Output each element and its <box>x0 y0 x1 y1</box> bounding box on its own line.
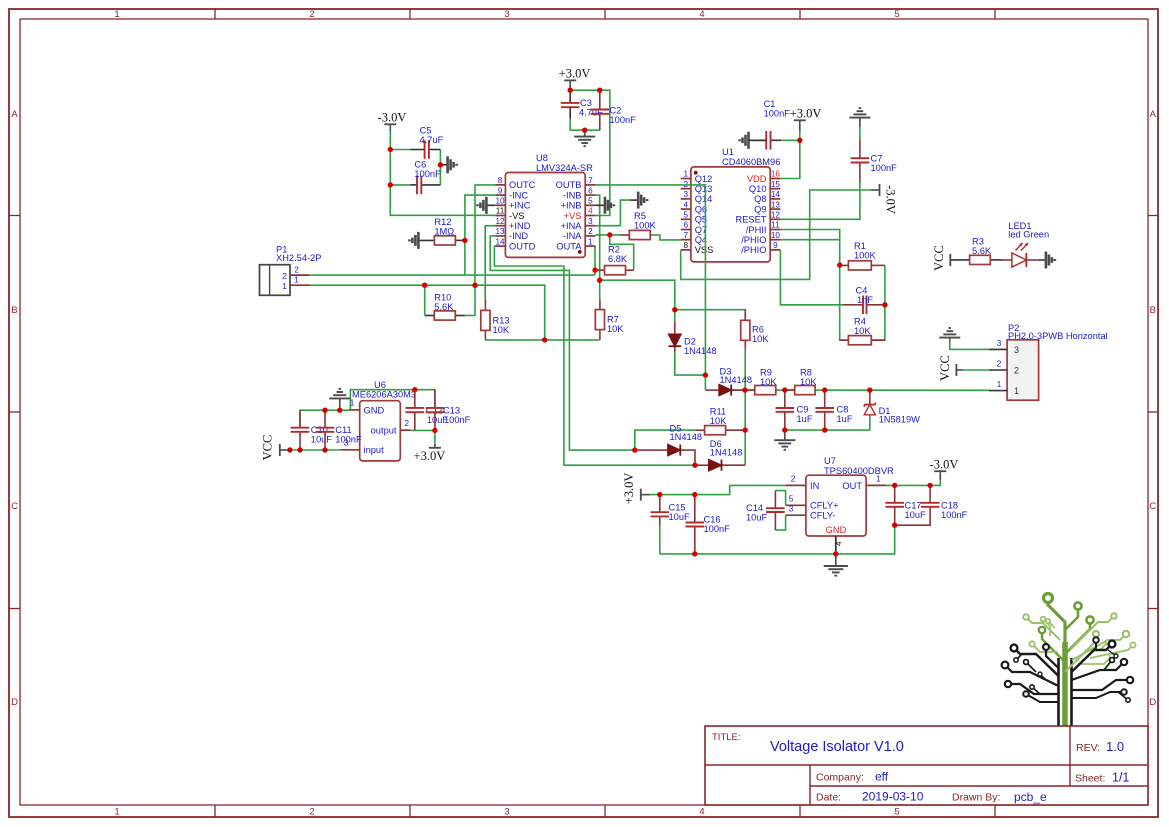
svg-text:100nF: 100nF <box>414 169 441 179</box>
svg-text:R1: R1 <box>854 241 866 251</box>
wire -INA to R2 right <box>610 235 634 270</box>
wire U6 input row <box>290 449 341 451</box>
svg-text:C18: C18 <box>941 501 958 511</box>
svg-text:3: 3 <box>684 190 689 199</box>
junction U6 out <box>432 428 437 433</box>
svg-text:10K: 10K <box>493 325 510 335</box>
svg-text:CFLY-: CFLY- <box>810 511 835 521</box>
svg-text:ME6206A30M3: ME6206A30M3 <box>352 390 416 400</box>
wire OUTC to P1-1 rail <box>465 185 496 316</box>
resistor R6 10K <box>741 310 770 350</box>
svg-text:TPS60400DBVR: TPS60400DBVR <box>824 466 894 476</box>
wire R8 to P2 rail <box>815 389 989 391</box>
capacitor C12 10uF <box>406 390 449 431</box>
junction U7 gnd pin <box>833 551 838 556</box>
svg-text:C5: C5 <box>420 126 432 136</box>
svg-text:R7: R7 <box>607 315 619 325</box>
wire R10 left riser <box>424 285 426 315</box>
svg-text:Q14: Q14 <box>695 194 713 204</box>
svg-text:R9: R9 <box>760 368 772 378</box>
svg-text:2: 2 <box>294 265 299 274</box>
junction R1 left <box>837 262 842 267</box>
ground GND above U6 <box>329 389 350 399</box>
power +3.0V U1 <box>790 107 822 132</box>
capacitor C14 10uF <box>746 491 785 530</box>
power VCC R3 <box>932 245 950 271</box>
svg-text:1N4148: 1N4148 <box>684 346 717 356</box>
svg-text:+INB: +INB <box>561 201 582 211</box>
capacitor C9 1uF <box>776 390 813 430</box>
svg-text:2: 2 <box>1014 366 1019 376</box>
svg-text:10K: 10K <box>854 326 871 336</box>
wire -3.0V branch to VSS <box>681 190 871 279</box>
svg-text:100nF: 100nF <box>335 435 362 445</box>
junction U6 gnd stem <box>337 408 342 413</box>
svg-text:10uF: 10uF <box>905 510 927 520</box>
junction C3 top <box>568 88 573 93</box>
svg-text:14: 14 <box>771 190 781 199</box>
wire +3.0V to C2 top rail <box>570 90 610 215</box>
wire R1 right down to R4 <box>871 265 885 340</box>
connector P1 XH2.54-2P <box>260 245 322 296</box>
svg-text:6: 6 <box>588 186 593 195</box>
svg-text:C17: C17 <box>905 501 922 511</box>
power +3.0V top <box>559 67 591 91</box>
wire PHIO10 join <box>780 239 839 241</box>
svg-text:1: 1 <box>1014 386 1019 396</box>
svg-text:100nF: 100nF <box>704 524 731 534</box>
junction VCC U6 <box>287 447 292 452</box>
junction C5 row <box>388 147 393 152</box>
junction R7 node <box>597 278 602 283</box>
svg-text:13: 13 <box>771 200 781 209</box>
svg-text:+3.0V: +3.0V <box>622 473 636 505</box>
resistor R9 10K <box>745 368 777 395</box>
capacitor C13 100nF <box>426 390 471 431</box>
svg-text:OUTB: OUTB <box>556 180 582 190</box>
svg-text:C: C <box>1149 501 1156 512</box>
svg-text:R6: R6 <box>752 325 764 335</box>
ground flag C6 node <box>448 156 457 173</box>
svg-text:C8: C8 <box>837 405 849 415</box>
svg-text:C9: C9 <box>797 405 809 415</box>
diode D2 1N4148 <box>669 322 717 356</box>
power +3.0V U6out <box>414 448 446 463</box>
wire C15 bottom <box>659 525 661 554</box>
wire C5 row left <box>390 149 410 151</box>
junction C8 bottom <box>822 427 827 432</box>
junction gnd C3C2 <box>582 128 587 133</box>
wire R5 to Q4 <box>651 235 681 240</box>
svg-text:14: 14 <box>495 237 505 246</box>
svg-text:D: D <box>11 697 18 708</box>
svg-text:R2: R2 <box>608 245 620 255</box>
svg-text:Voltage Isolator V1.0: Voltage Isolator V1.0 <box>770 739 904 755</box>
wire C9 C8 D1 bottom row <box>785 415 870 430</box>
svg-text:100K: 100K <box>854 251 877 261</box>
svg-text:A: A <box>1150 109 1157 120</box>
svg-text:12: 12 <box>495 217 505 226</box>
connector P2 PH2.0-3PWB Horizontal <box>989 323 1108 400</box>
svg-text:1nF: 1nF <box>857 295 873 305</box>
svg-text:Q10: Q10 <box>749 184 767 194</box>
svg-text:3: 3 <box>504 807 509 818</box>
svg-text:6.8K: 6.8K <box>608 254 628 264</box>
svg-text:2: 2 <box>405 419 410 428</box>
wire D2 bottom to OUTB net <box>675 353 706 376</box>
wire OUTB to D3 node <box>595 185 705 390</box>
regulator U6 ME6206A30M3 <box>341 380 417 461</box>
wire -3.0V rail to -VS <box>390 131 495 215</box>
svg-text:+3.0V: +3.0V <box>414 449 446 463</box>
diode D6 1N4148 <box>695 439 745 471</box>
wire R1 left down to R4 <box>840 265 849 340</box>
svg-text:VCC: VCC <box>261 435 275 461</box>
svg-text:Company:: Company: <box>816 772 864 784</box>
svg-text:2: 2 <box>588 227 593 236</box>
svg-text:1N4148: 1N4148 <box>670 432 703 442</box>
svg-text:OUTD: OUTD <box>509 241 536 251</box>
svg-text:-INA: -INA <box>563 231 582 241</box>
svg-text:10uF: 10uF <box>669 512 691 522</box>
svg-text:10K: 10K <box>800 377 817 387</box>
junction C6 gnd <box>438 162 443 167</box>
wire D3 out row <box>731 389 755 391</box>
svg-text:C2: C2 <box>610 106 622 116</box>
svg-text:1: 1 <box>588 237 593 246</box>
svg-text:2: 2 <box>309 9 314 20</box>
svg-text:1: 1 <box>350 399 355 408</box>
svg-text:10: 10 <box>495 197 505 206</box>
junction C4 right <box>882 302 887 307</box>
svg-text:8: 8 <box>498 176 503 185</box>
svg-text:+INA: +INA <box>561 221 583 231</box>
capacitor C5 4.7uF <box>411 126 444 159</box>
wire U7 gnd rail <box>660 525 895 554</box>
svg-text:1uF: 1uF <box>837 414 853 424</box>
svg-text:CFLY+: CFLY+ <box>810 501 839 511</box>
resistor R5 100K <box>620 211 656 240</box>
svg-text:13: 13 <box>495 227 505 236</box>
capacitor C15 10uF <box>651 495 691 525</box>
svg-text:4: 4 <box>684 200 689 209</box>
svg-text:XH2.54-2P: XH2.54-2P <box>276 253 321 263</box>
power -3.0V topleft <box>378 111 407 132</box>
wire C6 row left <box>390 184 410 186</box>
svg-text:pcb_e: pcb_e <box>1014 790 1047 804</box>
svg-text:2: 2 <box>282 271 287 281</box>
junction R10 left <box>422 283 427 288</box>
svg-text:1uF: 1uF <box>797 414 813 424</box>
svg-text:IN: IN <box>810 481 819 491</box>
wire C14 top link <box>775 491 785 506</box>
ground flag R12 left <box>409 232 418 249</box>
svg-text:3: 3 <box>588 217 593 226</box>
svg-text:6: 6 <box>684 221 689 230</box>
svg-text:-INC: -INC <box>509 190 528 200</box>
svg-text:+3.0V: +3.0V <box>790 107 822 121</box>
svg-text:OUTC: OUTC <box>509 180 536 190</box>
resistor R10 5.6K <box>425 293 465 321</box>
svg-text:R3: R3 <box>972 237 984 247</box>
capacitor C7 100nF <box>851 140 898 183</box>
svg-text:8: 8 <box>684 241 689 250</box>
svg-text:4.7uF: 4.7uF <box>420 135 444 145</box>
svg-text:1.0: 1.0 <box>1106 739 1124 754</box>
op-amp U8 LMV324A-SR <box>495 153 595 257</box>
svg-text:100nF: 100nF <box>610 115 637 125</box>
svg-text:-3.0V: -3.0V <box>378 111 407 125</box>
svg-text:REV:: REV: <box>1076 742 1100 754</box>
svg-text:/PHIO: /PHIO <box>741 235 766 245</box>
svg-text:4: 4 <box>835 541 844 546</box>
svg-text:eff: eff <box>875 770 889 784</box>
resistor R7 10K <box>595 300 624 340</box>
wire C5-C6 right link <box>439 150 441 185</box>
wire U1 VDD wire <box>780 131 799 179</box>
resistor R1 100K <box>840 241 885 270</box>
junction OUTA/R2 <box>592 267 597 272</box>
svg-text:U1: U1 <box>722 147 734 157</box>
svg-text:100nF: 100nF <box>941 510 968 520</box>
logo pcb tree <box>1002 594 1136 727</box>
svg-text:Q8: Q8 <box>754 194 766 204</box>
svg-text:5: 5 <box>894 807 899 818</box>
wire P1 pin2 rail <box>310 274 595 276</box>
resistor R13 10K <box>481 299 510 340</box>
svg-text:input: input <box>364 445 385 455</box>
wire C1 right link <box>781 139 800 141</box>
junction R11 right <box>743 427 748 432</box>
svg-text:10K: 10K <box>760 377 777 387</box>
resistor R11 10K <box>695 407 745 435</box>
ground GND below C9 <box>774 440 795 450</box>
wire +IND to R13 <box>485 226 495 300</box>
svg-text:5.6K: 5.6K <box>972 246 992 256</box>
junction R12 right <box>462 238 467 243</box>
svg-text:100nF: 100nF <box>764 109 791 119</box>
svg-text:Sheet:: Sheet: <box>1075 773 1105 785</box>
diode D1 1N5819W schottky <box>864 390 920 425</box>
junction C1 right <box>797 138 802 143</box>
LED LED1 led Green <box>1002 221 1049 267</box>
svg-text:C: C <box>11 501 18 512</box>
junction D5 anode <box>632 447 637 452</box>
svg-text:-INB: -INB <box>563 190 582 200</box>
svg-text:3: 3 <box>504 9 509 20</box>
svg-text:1: 1 <box>997 380 1002 389</box>
svg-text:12: 12 <box>771 211 781 220</box>
wire R6 top row <box>675 310 745 321</box>
svg-text:led Green: led Green <box>1008 230 1049 240</box>
svg-text:R13: R13 <box>493 316 510 326</box>
svg-text:B: B <box>11 305 17 316</box>
svg-text:10K: 10K <box>710 416 727 426</box>
junction R9-R8 <box>782 387 787 392</box>
svg-text:Q9: Q9 <box>754 204 766 214</box>
ground flag U8 +INB <box>605 197 614 214</box>
capacitor C3 4.7uF <box>561 90 603 118</box>
svg-text:11: 11 <box>496 207 505 216</box>
junction C9 bottom <box>782 427 787 432</box>
diode D5 1N4148 <box>635 424 702 456</box>
capacitor C16 100nF <box>686 495 731 554</box>
svg-text:D: D <box>1149 697 1156 708</box>
svg-text:LMV324A-SR: LMV324A-SR <box>536 163 593 173</box>
svg-text:1/1: 1/1 <box>1112 771 1129 785</box>
junction C17 bottom <box>892 523 897 528</box>
svg-text:1: 1 <box>684 170 689 179</box>
wire U6 top loop <box>350 390 435 411</box>
junction C16 top <box>692 492 697 497</box>
svg-text:2: 2 <box>791 475 796 484</box>
wire PHII to R1 <box>780 230 839 266</box>
svg-text:C7: C7 <box>871 154 883 164</box>
svg-text:7: 7 <box>684 231 689 240</box>
svg-text:1: 1 <box>294 276 299 285</box>
svg-text:/PHIO: /PHIO <box>741 245 766 255</box>
svg-text:C11: C11 <box>335 425 351 435</box>
ground flag LED right <box>1046 252 1055 269</box>
svg-text:9: 9 <box>498 186 503 195</box>
svg-text:1MΩ: 1MΩ <box>434 227 454 237</box>
svg-text:15: 15 <box>771 180 781 189</box>
svg-text:C4: C4 <box>856 286 868 296</box>
wire OUTA down <box>594 246 596 275</box>
junction C18 top <box>927 483 932 488</box>
wire +INA gnd <box>595 200 630 226</box>
wire +3.0V rail U7 <box>650 485 785 494</box>
svg-text:R4: R4 <box>854 317 866 327</box>
wire P2 pin2 vcc <box>963 369 989 371</box>
svg-text:1N4148: 1N4148 <box>710 448 743 458</box>
svg-text:U6: U6 <box>374 380 386 390</box>
svg-text:5: 5 <box>789 495 794 504</box>
svg-text:OUT: OUT <box>842 481 862 491</box>
junction C6 row <box>388 182 393 187</box>
svg-text:R11: R11 <box>710 407 726 417</box>
svg-text:C16: C16 <box>704 515 721 525</box>
svg-text:VCC: VCC <box>932 245 946 271</box>
junction U6 gnd C11 <box>322 408 327 413</box>
junction C17 top <box>892 483 897 488</box>
wire -IND to D5 <box>490 236 635 450</box>
svg-text:PH2.0-3PWB Horizontal: PH2.0-3PWB Horizontal <box>1008 331 1108 341</box>
svg-text:/PHII: /PHII <box>746 225 767 235</box>
title block <box>705 726 1148 805</box>
svg-text:100nF: 100nF <box>444 415 471 425</box>
svg-text:-IND: -IND <box>509 231 528 241</box>
svg-text:B: B <box>1150 305 1156 316</box>
svg-text:C15: C15 <box>669 503 686 513</box>
ground GND above P2 pin3 <box>939 328 960 338</box>
junction C2 top <box>597 88 602 93</box>
svg-text:VCC: VCC <box>938 355 952 381</box>
wire C6 gnd link <box>440 164 447 166</box>
capacitor C18 100nF <box>921 485 968 520</box>
wire R6 bottom <box>744 350 746 466</box>
junction C8 top <box>822 387 827 392</box>
resistor R8 10K <box>785 368 818 395</box>
svg-text:C1: C1 <box>764 99 776 109</box>
svg-text:10: 10 <box>771 231 781 240</box>
svg-text:3: 3 <box>997 339 1002 348</box>
svg-text:2: 2 <box>309 807 314 818</box>
svg-text:5: 5 <box>894 9 899 20</box>
svg-text:output: output <box>371 426 397 436</box>
junction D2 bottom <box>703 372 708 377</box>
svg-text:-3.0V: -3.0V <box>884 185 898 214</box>
svg-text:5.6K: 5.6K <box>434 302 454 312</box>
svg-text:A: A <box>11 109 18 120</box>
svg-text:16: 16 <box>771 170 781 179</box>
svg-text:C14: C14 <box>746 503 763 513</box>
junction -INA node <box>607 232 612 237</box>
svg-text:5: 5 <box>684 211 689 220</box>
wire U6 output row <box>411 430 435 443</box>
svg-text:11: 11 <box>771 221 780 230</box>
charge-pump U7 TPS60400DBVR <box>786 456 894 554</box>
svg-text:Q12: Q12 <box>695 174 713 184</box>
svg-text:R12: R12 <box>434 217 451 227</box>
svg-text:+IND: +IND <box>509 221 531 231</box>
junction D1 top <box>867 387 872 392</box>
svg-text:100nF: 100nF <box>871 163 898 173</box>
svg-text:TITLE:: TITLE: <box>712 732 741 743</box>
svg-text:1: 1 <box>114 807 119 818</box>
capacitor C17 10uF <box>885 485 926 525</box>
svg-text:10K: 10K <box>607 324 624 334</box>
ground GND above C7 <box>849 108 870 118</box>
svg-text:+3.0V: +3.0V <box>559 67 591 81</box>
svg-text:U7: U7 <box>824 456 836 466</box>
wire C18 bottom link <box>895 507 930 525</box>
svg-text:R8: R8 <box>800 368 812 378</box>
svg-text:D2: D2 <box>684 337 696 347</box>
capacitor C8 1uF <box>815 390 852 430</box>
wire P1 pin1 rail <box>310 285 545 340</box>
svg-text:C6: C6 <box>414 160 426 170</box>
power -3.0V C7 <box>871 184 898 214</box>
ground flag U8 +INC <box>477 197 486 214</box>
junction D6 anode <box>692 463 697 468</box>
svg-text:C13: C13 <box>443 405 460 415</box>
svg-text:9: 9 <box>773 241 778 250</box>
svg-text:Drawn By:: Drawn By: <box>952 792 1000 804</box>
wire +INC gnd <box>486 204 495 206</box>
svg-text:2019-03-10: 2019-03-10 <box>862 790 924 804</box>
wire U7 out rail <box>886 480 940 485</box>
svg-text:CD4060BM96: CD4060BM96 <box>722 157 780 167</box>
svg-text:1N5819W: 1N5819W <box>879 415 921 425</box>
resistor R2 6.8K <box>595 245 634 275</box>
svg-text:GND: GND <box>364 405 385 415</box>
capacitor C2 100nF <box>591 90 637 130</box>
wire +INB gnd <box>595 204 605 206</box>
resistor R12 1MΩ <box>418 217 465 245</box>
wire U6 gnd row <box>300 410 350 428</box>
wire R13 R7 bottom row <box>485 339 600 341</box>
wire C3 C2 bottom <box>570 119 600 131</box>
svg-text:U8: U8 <box>536 153 548 163</box>
wire -INC to P1-2 rail <box>465 195 495 275</box>
power +3.0V U7in <box>622 473 650 505</box>
svg-text:-VS: -VS <box>509 211 525 221</box>
wire +INA gnd lead <box>630 199 638 201</box>
svg-text:4: 4 <box>588 207 593 216</box>
svg-text:GND: GND <box>826 525 847 535</box>
wire R11 left link <box>635 430 695 450</box>
